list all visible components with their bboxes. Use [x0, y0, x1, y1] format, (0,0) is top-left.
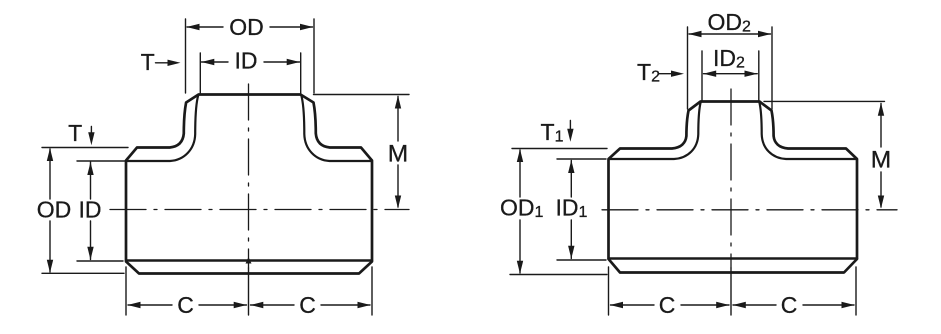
ID1 left vertical dimension: line and arrows	[570, 161, 572, 259]
OD1 left vertical dimension: line and arrows	[519, 150, 521, 273]
C bottom dimension lines and arrows	[128, 304, 247, 306]
ID1 left vertical dimension: extension lines	[557, 158, 606, 160]
dimension OD2: extension lines	[687, 27, 689, 109]
label T top with arrow	[156, 62, 169, 64]
right run horizontal centerline	[602, 209, 897, 211]
label T2 with arrow	[659, 73, 671, 75]
dimension OD2: line and arrows	[689, 33, 771, 35]
right tee bore line right crotch	[759, 102, 856, 159]
right bottom center extension line	[730, 268, 732, 315]
ID left vertical dimension: line and arrows	[90, 162, 92, 260]
dimension ID top: extension lines	[199, 53, 201, 94]
svg-text:T: T	[141, 49, 155, 75]
svg-text:C: C	[781, 292, 798, 318]
left run horizontal centerline	[110, 209, 409, 211]
M right dimension (right figure): line and arrows	[880, 104, 882, 208]
dimension OD top: extension lines	[185, 19, 187, 93]
OD left vertical dimension: line and arrows	[49, 149, 51, 272]
right branch vertical centerline	[730, 89, 732, 268]
left tee run bore bottom line	[126, 259, 372, 261]
label T1 with down arrow	[569, 121, 571, 130]
svg-text:M: M	[388, 141, 408, 168]
svg-text:ID: ID	[235, 48, 258, 74]
dimension ID top: lines and arrows	[202, 61, 300, 63]
right tee run bore bottom line	[609, 257, 858, 259]
svg-text:C: C	[299, 292, 316, 318]
C bottom dimension lines and arrows (right figure)	[611, 304, 730, 306]
M right dimension (right figure): extension line	[764, 100, 885, 102]
svg-text:C: C	[177, 292, 194, 318]
C bottom dimensions: extension lines	[125, 267, 127, 315]
OD1 left vertical dimension: extension lines	[512, 148, 607, 150]
dimension OD top: lines and arrows	[187, 26, 313, 28]
svg-text:M: M	[871, 147, 891, 174]
ID left vertical dimension: extension lines	[77, 160, 126, 162]
left branch vertical centerline	[248, 84, 250, 268]
svg-text:T: T	[68, 120, 82, 146]
M right dimension: extension line	[314, 94, 410, 96]
svg-text:OD: OD	[229, 14, 264, 40]
svg-text:OD: OD	[37, 197, 72, 223]
right tee body outline	[609, 102, 858, 273]
left tee bore line right crotch	[301, 95, 371, 161]
label T left with down arrow	[90, 127, 92, 133]
left tee bore line left crotch	[127, 95, 198, 161]
C bottom dimensions (right figure): extension lines	[608, 267, 610, 315]
M right dimension: line and arrows	[397, 97, 399, 208]
svg-text:C: C	[659, 292, 676, 318]
left bottom center extension line	[248, 268, 250, 315]
dimension ID2: line and arrows	[704, 73, 758, 75]
dimension ID2: extension lines	[701, 51, 703, 101]
small arrow at bottom centerline	[246, 257, 252, 264]
left tee body outline	[126, 95, 372, 274]
OD left vertical dimension: extension lines	[42, 147, 128, 149]
svg-text:ID: ID	[79, 197, 102, 223]
right tee bore line left crotch	[609, 102, 701, 159]
